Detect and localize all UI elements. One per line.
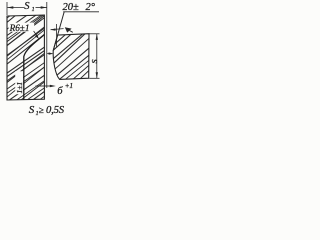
svg-text:≥: ≥: [39, 106, 44, 116]
vertical extension line at bevel root: [56, 24, 58, 47]
dimension line S1 left segment: [7, 7, 24, 9]
arrowhead angle left: [50, 28, 55, 30]
white halo for R6 label: [9, 23, 35, 32]
extension line left of S1: [6, 2, 8, 15]
arc tail right: [70, 31, 73, 33]
svg-text:б: б: [57, 86, 63, 97]
svg-text:1±1: 1±1: [15, 82, 24, 94]
svg-text:s: s: [88, 59, 100, 63]
joint boundary: R6 fillet curve and lock step line: [24, 35, 45, 100]
part 1 hatch fill (left stepped block): [0, 11, 165, 102]
label underline / leader shoulder: [63, 11, 99, 13]
gap b dimension line: [36, 85, 51, 87]
svg-text:1: 1: [32, 7, 35, 13]
svg-text:2°: 2°: [86, 2, 96, 13]
arrowhead s top: [96, 34, 98, 40]
extension line s bottom: [89, 77, 99, 79]
arrowhead s bottom: [96, 72, 98, 78]
white halo for rotated 1±1: [15, 71, 23, 94]
part 2 hatch fill (right beveled block): [0, 29, 150, 82]
leader R6: [34, 31, 38, 37]
part 2 outline: [53, 34, 89, 80]
extension line s top: [90, 33, 100, 35]
dimension line s: [96, 34, 98, 78]
extension line right of S1 / b (long thin): [46, 2, 48, 88]
svg-text:R6±1: R6±1: [9, 23, 30, 33]
svg-text:+1: +1: [65, 82, 73, 90]
arrowhead S1 right: [41, 6, 47, 8]
svg-text:S: S: [24, 1, 30, 12]
arrowhead S1 left: [7, 6, 13, 8]
leader R6 arrowhead: [35, 34, 39, 38]
part 1 outline: [7, 15, 44, 100]
angle arc with left arrow: [51, 29, 64, 30]
svg-text:20±: 20±: [63, 2, 80, 13]
arrowhead angle right (at leader): [65, 27, 72, 32]
svg-text:S: S: [29, 104, 35, 116]
svg-text:0,5S: 0,5S: [46, 105, 65, 116]
dimension line S1 right segment: [36, 7, 47, 9]
gap arrow mid (points to part 2 face): [47, 53, 50, 55]
bevel edge with leader line to angle label: [53, 12, 64, 51]
arrowhead b: [50, 85, 56, 88]
